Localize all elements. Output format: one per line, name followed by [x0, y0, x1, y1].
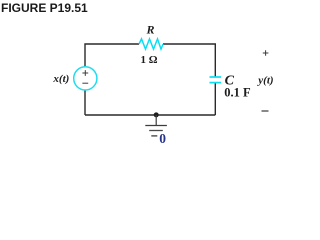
resistor value label 1 Ω: [140, 54, 157, 66]
capacitor C: [210, 77, 222, 83]
figure caption FIGURE P19.51: [1, 1, 88, 15]
svg-text:1 Ω: 1 Ω: [140, 54, 157, 66]
wire bottom segment: [85, 114, 215, 116]
output minus terminal label: [262, 110, 269, 112]
wire top-left segment: [85, 44, 139, 67]
capacitor label C: [225, 73, 235, 88]
wire left lower segment: [84, 90, 86, 115]
svg-text:FIGURE P19.51: FIGURE P19.51: [1, 1, 88, 15]
voltage source x(t): [74, 67, 97, 90]
output plus terminal label: [263, 50, 269, 56]
junction dot: [154, 112, 159, 117]
svg-text:0.1 F: 0.1 F: [224, 86, 251, 100]
output label y(t): [256, 74, 273, 86]
wire right lower segment: [214, 83, 216, 115]
source label x(t): [52, 73, 69, 85]
capacitor value label 0.1 F: [224, 86, 251, 100]
resistor R: [139, 39, 163, 49]
svg-text:R: R: [145, 23, 154, 37]
ground: [145, 115, 167, 136]
svg-text:0: 0: [159, 131, 166, 146]
node 0 label: [159, 131, 166, 146]
svg-text:x(t): x(t): [52, 73, 69, 85]
resistor label R: [145, 23, 154, 37]
svg-text:y(t): y(t): [256, 74, 273, 86]
wire top-right segment: [163, 44, 215, 77]
